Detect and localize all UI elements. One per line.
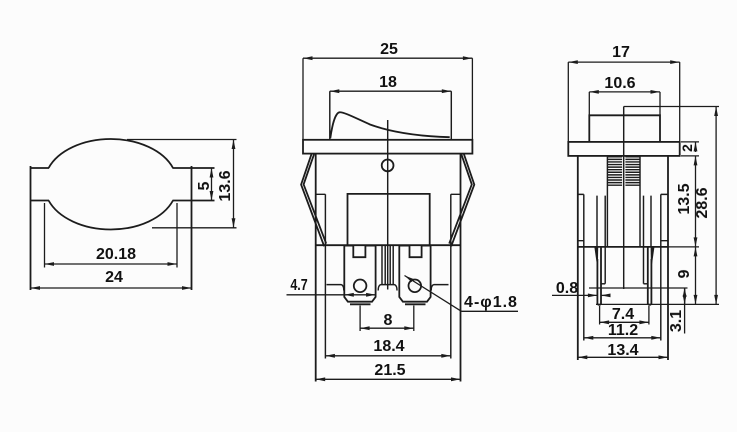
- top extension line for 13.6: [127, 139, 237, 141]
- label 9: [677, 269, 693, 278]
- blade columns: [597, 196, 651, 284]
- body bottom edge: [578, 246, 668, 248]
- dimension 2: [681, 141, 699, 143]
- inner wall left: [316, 194, 326, 358]
- label 24: [105, 270, 123, 286]
- dimension 9: [668, 246, 699, 248]
- dimension 18.4: [325, 355, 450, 357]
- label 5: [197, 181, 213, 190]
- label 28.6: [695, 187, 711, 218]
- label 17: [612, 45, 630, 61]
- dimension 25: [303, 57, 472, 59]
- bottom extension line for 13.6: [152, 227, 237, 229]
- pin 1 blade step: [601, 283, 605, 285]
- dimension 21.5: [316, 378, 461, 380]
- flange side: [568, 142, 679, 156]
- dimension 28.6: [624, 106, 719, 108]
- dimension 3.1: [589, 287, 688, 289]
- dimension 5: [211, 168, 213, 201]
- inner wall right: [451, 194, 461, 358]
- pin 2 taper wedge: [651, 247, 655, 265]
- label 8: [383, 313, 392, 329]
- central divider lines: [382, 246, 393, 285]
- label 20.18: [96, 247, 136, 263]
- panel flange: [303, 140, 472, 154]
- dimension 11.2: [584, 337, 661, 339]
- left inner extension line: [44, 203, 46, 268]
- pin 2 blade step: [644, 283, 648, 285]
- label 7.4: [612, 307, 634, 323]
- body left wall: [315, 154, 317, 382]
- snap clip left: [301, 154, 326, 247]
- dimension 18: [330, 90, 452, 92]
- label 4-phi1.8: [464, 295, 518, 311]
- label 2: [680, 144, 694, 152]
- label 0.8: [555, 281, 577, 297]
- left tab outline: [31, 166, 50, 290]
- label 4.7: [290, 278, 307, 294]
- dimension 24: [31, 287, 192, 289]
- screw hole circle: [382, 160, 394, 172]
- spring hatch left column: [608, 157, 640, 185]
- body outer walls: [578, 156, 668, 360]
- terminal 2 hole: [409, 280, 422, 293]
- label 11.2: [608, 323, 638, 339]
- dimension 7.4: [599, 306, 601, 325]
- label 21.5: [374, 363, 405, 379]
- rocker ellipse: [49, 139, 173, 229]
- dimension 8: [359, 306, 361, 332]
- dimension 20.18: [45, 263, 178, 265]
- pin 2: [648, 247, 652, 305]
- right inner extension line: [176, 203, 178, 268]
- snap clip right: [449, 154, 474, 247]
- rear terminal bottom middle: [378, 285, 397, 291]
- label 18: [379, 75, 397, 91]
- dimension 13.4: [578, 356, 668, 358]
- label 25: [380, 42, 398, 58]
- center line: [387, 120, 389, 290]
- rear terminal bottom left: [327, 285, 344, 291]
- terminal 1 hole: [354, 280, 367, 293]
- dimension 13.6: [233, 140, 235, 228]
- dimension 17: [568, 61, 679, 63]
- right tab outline: [173, 166, 215, 290]
- left extension for 25: [302, 58, 304, 140]
- dimension 10.6: [589, 91, 660, 93]
- body bottom steps: [578, 240, 668, 242]
- label 13.5: [677, 183, 693, 214]
- right extension for 25: [471, 58, 473, 140]
- dimension 4.7: [287, 294, 345, 296]
- body right wall: [460, 154, 462, 382]
- label 13.4: [607, 343, 638, 359]
- body bottom edge: [316, 244, 461, 246]
- leader 4-phi1.8: [405, 276, 462, 312]
- dimension 13.5: [695, 156, 697, 247]
- terminal 1 (left): [344, 246, 375, 302]
- pin 1 taper wedge: [594, 247, 598, 265]
- terminal 2 (right): [399, 246, 430, 302]
- center line: [623, 107, 625, 290]
- dimension 0.8: [552, 294, 597, 296]
- label 13.6: [218, 170, 234, 201]
- label 10.6: [605, 76, 636, 92]
- rocker right side: [450, 91, 452, 140]
- body inner walls: [584, 194, 661, 340]
- spring column sides: [607, 156, 640, 247]
- central recess: [348, 194, 430, 245]
- rocker left side: [329, 91, 331, 140]
- label 3.1: [669, 309, 685, 331]
- label 18.4: [374, 339, 405, 355]
- rocker side profile: [589, 115, 660, 142]
- rocker hump curve: [330, 112, 449, 138]
- rear terminal bottom right: [431, 285, 448, 291]
- inner wall steps: [578, 193, 668, 195]
- pin 1: [597, 247, 601, 305]
